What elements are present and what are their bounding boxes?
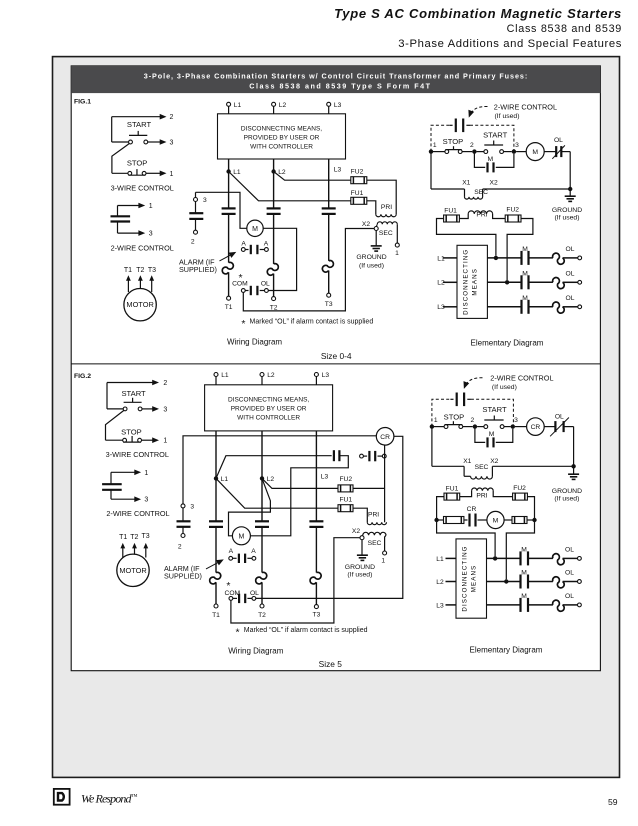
svg-text:1: 1 (433, 142, 437, 149)
fig2 COM-OL contact left terminal (229, 597, 233, 601)
fig2 fuse FU2 (338, 485, 353, 492)
fig2 elem ground node (571, 464, 575, 468)
fig1 line terminal L3 (327, 102, 331, 106)
fig2 elem wire OL to terminal L2 (563, 581, 578, 583)
fig1 M power contact L3 (322, 207, 336, 209)
fig1 terminal X2 (376, 224, 377, 226)
svg-text:SEC: SEC (379, 230, 393, 237)
fig2 2-wire control wire to point 1 (111, 471, 136, 473)
svg-text:M: M (522, 246, 528, 253)
svg-text:3-WIRE CONTROL: 3-WIRE CONTROL (111, 183, 174, 192)
svg-text:Wiring Diagram: Wiring Diagram (227, 338, 282, 347)
fig2 overload heater on T2 (256, 572, 267, 584)
fig2 elem node rung left (434, 518, 438, 522)
svg-text:FU2: FU2 (506, 207, 519, 214)
fig1 fuse FU1 (351, 197, 367, 204)
fig1 elem fuse FU1 (444, 215, 460, 222)
fig2 line terminal L1 (214, 373, 218, 377)
fig2 node L1 (214, 476, 218, 480)
fig2 START pushbutton (124, 401, 142, 403)
fig2 elem M seal-in contact (475, 427, 485, 443)
svg-text:T3: T3 (325, 301, 333, 308)
fig1 elem bottom rail left segment (431, 188, 465, 190)
fig2 STOP pushbutton (106, 439, 123, 441)
svg-text:Wiring Diagram: Wiring Diagram (228, 647, 283, 656)
svg-text:STOP: STOP (121, 427, 142, 436)
fig1 elem dashed 2-wire box (431, 125, 514, 151)
fig2 elem wire M contact to OL L2 (528, 581, 553, 583)
svg-text:L1: L1 (234, 102, 242, 109)
fig1 2-wire contact (111, 215, 131, 217)
svg-text:3: 3 (514, 417, 518, 424)
fig2 alarm contact terminal A right (252, 556, 256, 560)
svg-text:SUPPLIED): SUPPLIED) (164, 572, 202, 581)
svg-text:L2: L2 (267, 476, 275, 483)
svg-text:(If used): (If used) (359, 262, 384, 269)
svg-text:3: 3 (144, 497, 148, 504)
fig2 wire start to stop diagonal (106, 410, 124, 440)
svg-text:L2: L2 (278, 169, 286, 176)
fig2 elem wire FU2 right down to rung (527, 497, 534, 520)
fig1 disconnecting means box (218, 114, 346, 159)
fig1 terminal 3 (194, 198, 198, 202)
fig2 fuse FU1 (338, 505, 353, 512)
svg-text:2-WIRE CONTROL: 2-WIRE CONTROL (106, 509, 169, 518)
fig2 elem STOP contact (434, 426, 444, 428)
fig1 motor lead arrow 1 (127, 279, 129, 292)
svg-text:3-Pole, 3-Phase Combination St: 3-Pole, 3-Phase Combination Starters w/ … (144, 71, 528, 80)
inner white content box (71, 66, 600, 671)
fig2 wire L1 to FU1 (216, 478, 338, 508)
fig2 line terminal L2 (260, 373, 264, 377)
svg-text:Elementary Diagram: Elementary Diagram (471, 338, 544, 347)
svg-text:FIG.1: FIG.1 (74, 98, 91, 105)
fig2 elem fuse FU1 (444, 493, 460, 500)
fig1 wire contact to terminal 2 (195, 219, 197, 230)
fig1 elem M seal-in contact (474, 152, 485, 168)
svg-text:MEANS: MEANS (471, 565, 478, 593)
svg-text:FU2: FU2 (513, 485, 526, 492)
svg-text:T1: T1 (119, 534, 127, 541)
svg-text:SUPPLIED): SUPPLIED) (179, 265, 217, 274)
svg-text:T2: T2 (136, 267, 144, 274)
fig1 line terminal L1 (227, 102, 231, 106)
svg-text:L1: L1 (221, 476, 229, 483)
fig1 elem overload heater L2 (553, 278, 565, 289)
fig1 elem node at L2 tap (505, 280, 509, 284)
fig2 elem node rung right (532, 518, 536, 522)
svg-text:FU2: FU2 (351, 168, 364, 175)
svg-text:M: M (252, 226, 258, 233)
svg-text:1: 1 (149, 203, 153, 210)
svg-text:OL: OL (565, 546, 574, 553)
fig1 motor lead arrow 2 (139, 279, 141, 289)
fig2 wire T1 to terminal (215, 582, 217, 604)
fig1 terminal 3 stub (195, 192, 197, 197)
fig2 wire L1 up to 2-wire contact (216, 456, 332, 479)
fig2 elem wire M contact to OL L1 (528, 557, 553, 559)
svg-text:PRI: PRI (476, 492, 487, 499)
fig2 terminal 2 (181, 534, 185, 538)
fig1 line terminal L2 (272, 102, 276, 106)
svg-text:3: 3 (190, 504, 194, 511)
fig2 elem wire OL to terminal L1 (563, 557, 578, 559)
fig2 M coil circle (232, 527, 250, 545)
fig1 elem wire M contact to OL L3 (529, 306, 553, 308)
fig1 elem overload heater L1 (553, 253, 565, 264)
fig1 alarm contact terminal A right (265, 248, 269, 252)
fig1 wire start to stop diagonal (112, 144, 129, 174)
fig1 elem bottom rail right segment (483, 188, 571, 190)
fig2 M power contact L2 (255, 520, 269, 522)
fig2 CR coil circle (376, 428, 394, 446)
svg-text:Class 8538 and 8539: Class 8538 and 8539 (507, 23, 622, 35)
svg-text:MOTOR: MOTOR (126, 300, 153, 309)
svg-text:3: 3 (203, 197, 207, 204)
svg-text:X2: X2 (362, 221, 370, 228)
fig2 wires terminals into disconnect box (215, 377, 217, 385)
svg-text:GROUND: GROUND (552, 488, 582, 495)
svg-text:OL: OL (555, 413, 564, 420)
fig2 floating 2-wire contact (363, 455, 367, 457)
svg-text:2: 2 (191, 239, 195, 246)
fig1 overload heater on T1 (222, 262, 233, 274)
fig2 M power contact L3 (309, 520, 323, 522)
svg-text:(If used): (If used) (555, 215, 580, 222)
fig1 2-wire wire to point 3 (117, 222, 119, 234)
svg-text:T3: T3 (142, 533, 150, 540)
svg-text:L1: L1 (437, 255, 445, 262)
fig2 wire L1 contact to OL (215, 527, 217, 573)
fig2 overload heater on T3 (310, 572, 321, 584)
fig2 2-wire tap contact (177, 520, 191, 522)
fig2 wire L3 below box (315, 431, 317, 521)
fig1 wire terminal 3 to contact (195, 202, 197, 214)
fig1 elem L1 line to M contact (487, 257, 521, 259)
fig2 wire CR bottom to FU2 and primary right (384, 445, 386, 522)
svg-text:FU1: FU1 (351, 190, 364, 197)
fig2 elem ground symbol (573, 466, 575, 474)
fig1 elem right rail down (569, 152, 571, 189)
fig2 motor terminal T3 (314, 605, 318, 609)
svg-text:OL: OL (565, 593, 574, 600)
fig1 COM-OL contact (245, 290, 248, 292)
fig2 wire FU1 right to primary left (353, 508, 367, 522)
fig1 elem wire node3 to M coil (516, 151, 526, 153)
svg-text:L2: L2 (437, 280, 445, 287)
fig2 wire start to point 3 (107, 408, 123, 410)
fig2 overload heater on T1 (210, 572, 221, 584)
fig2 terminal 1 of control (383, 551, 387, 555)
fig2 elem right rail down (573, 427, 575, 467)
fig1 motor terminal T3 (327, 293, 331, 297)
svg-text:3: 3 (170, 140, 174, 147)
svg-text:3: 3 (515, 142, 519, 149)
svg-text:1: 1 (170, 171, 174, 178)
fig2 elem wire node3 to CR coil (515, 426, 527, 428)
fig2 motor lead arrow 2 (134, 547, 136, 555)
fig1 elem node 3 (512, 149, 516, 153)
fig2 elem L2 line to M contact (487, 581, 521, 583)
fig1 elem M coil (526, 143, 544, 161)
fig1 2-wire control wire to point 1 (118, 205, 140, 207)
fig2 elem open terminal L3 (578, 603, 582, 607)
fig2 wire L1 below box (215, 431, 217, 521)
fig2 wire L2 contact to OL (261, 527, 263, 573)
fig2 floating 2-wire terminal right (382, 454, 386, 458)
fig2 M power contact L1 (209, 520, 223, 522)
svg-text:SEC: SEC (474, 189, 488, 196)
fig2 elem M coil (487, 511, 504, 528)
fig2 wire M coil left to L2 node (229, 478, 271, 535)
fig1 wire SEC right to terminal 1 (396, 224, 398, 243)
fig1 elem dashed pointer arrow (471, 106, 488, 114)
svg-text:M: M (238, 533, 244, 540)
svg-text:START: START (483, 131, 508, 140)
svg-text:3: 3 (163, 406, 167, 413)
fig1 elem STOP contact (433, 151, 445, 153)
fig1 motor terminal T1 (227, 296, 231, 300)
svg-text:FIG.2: FIG.2 (74, 373, 91, 380)
fig1 elem fuse FU2 (505, 215, 521, 222)
fig2 elem OL contact (544, 426, 555, 428)
fig1 wire FU1 to transformer primary left (367, 201, 376, 214)
fig1 elem node at L1 tap (494, 256, 498, 260)
fig1 START pushbutton (129, 134, 147, 136)
fig2 wire SEC right to terminal 1 (385, 535, 386, 551)
svg-text:MEANS: MEANS (472, 268, 479, 296)
fig2 COM-OL contact (233, 597, 237, 599)
svg-text:2: 2 (470, 142, 474, 149)
svg-text:2: 2 (178, 544, 182, 551)
svg-text:X2: X2 (490, 458, 498, 465)
svg-text:L2: L2 (267, 372, 275, 379)
fig2 motor lead arrow 1 (122, 547, 124, 558)
svg-text:DISCONNECTING: DISCONNECTING (462, 545, 469, 611)
fig2 elem node at L2 tap (504, 579, 508, 583)
svg-text:Type S AC Combination Magnetic: Type S AC Combination Magnetic Starters (334, 6, 622, 21)
fig1 wire FU2 to transformer primary right (367, 180, 396, 214)
svg-text:OL: OL (566, 246, 575, 253)
fig1 wire L3 contact to OL (328, 214, 330, 261)
fig2 wire T2 to terminal (261, 582, 263, 604)
svg-text:M: M (522, 271, 528, 278)
svg-text:X2: X2 (352, 528, 360, 535)
svg-text:Size 0-4: Size 0-4 (321, 351, 352, 361)
fig2 elem node 3 (511, 424, 515, 428)
fig1 elem ground symbol (569, 189, 571, 196)
fig1 MOTOR circle (124, 289, 156, 321)
svg-text:OL: OL (565, 570, 574, 577)
svg-text:PROVIDED BY USER OR: PROVIDED BY USER OR (244, 135, 320, 142)
svg-text:L3: L3 (321, 474, 329, 481)
fig2 elem wire rung left to L1 tap (437, 520, 496, 556)
svg-text:STOP: STOP (127, 158, 148, 167)
fig2 elem overload heater L1 (553, 554, 565, 565)
svg-text:SEC: SEC (368, 540, 382, 547)
fig2 wire L2 to FU2 (262, 478, 338, 488)
svg-text:OL: OL (261, 281, 270, 288)
fig2 3-wire control wire to point 2 (107, 382, 154, 384)
svg-text:L2: L2 (279, 102, 287, 109)
svg-text:M: M (493, 518, 499, 525)
svg-text:CR: CR (531, 424, 541, 431)
svg-text:STOP: STOP (443, 137, 464, 146)
svg-text:STOP: STOP (444, 413, 465, 422)
fig2 elem bottom rail left segment (432, 465, 464, 467)
svg-text:A: A (264, 240, 269, 247)
fig1 elem wire OL to terminal L3 (563, 306, 578, 308)
fig1 alarm contact terminal A left (241, 248, 245, 252)
fig1 COM-OL contact left terminal (241, 289, 245, 293)
fig1 wire X2 to bottom rail (243, 229, 374, 311)
fig1 overload heater on T2 (267, 264, 278, 276)
fig1 wire L1 to FU1 (229, 172, 351, 201)
svg-text:Size 5: Size 5 (319, 659, 343, 669)
fig1 elem wire OL to terminal L1 (563, 257, 578, 259)
fig2 elem disconnecting means box (456, 539, 487, 618)
svg-text:FU1: FU1 (339, 497, 352, 504)
svg-text:2-WIRE CONTROL: 2-WIRE CONTROL (494, 102, 557, 111)
svg-text:(If used): (If used) (347, 572, 372, 579)
svg-text:(If used): (If used) (554, 496, 579, 503)
svg-text:X1: X1 (463, 458, 471, 465)
svg-text:2: 2 (170, 114, 174, 121)
fig2 line terminal L3 (314, 373, 318, 377)
fig1 wire stop to point 1 (146, 172, 161, 174)
fig2 wire T3 to terminal (315, 582, 317, 604)
fig2 node L2 (260, 476, 264, 480)
svg-text:DISCONNECTING MEANS,: DISCONNECTING MEANS, (228, 397, 309, 404)
fig2 control rail from CR coil to terminal 3 branch (183, 436, 376, 504)
fig2 elem bottom rail right segment (492, 465, 573, 467)
svg-text:DISCONNECTING MEANS,: DISCONNECTING MEANS, (241, 126, 322, 133)
fig2 wire OL contact to CR loop (256, 436, 403, 598)
svg-text:CR: CR (467, 506, 477, 513)
fig1 elem OL contact (544, 151, 556, 153)
svg-text:X2: X2 (490, 180, 498, 187)
svg-text:1: 1 (395, 250, 399, 257)
svg-text:L1: L1 (221, 372, 229, 379)
fig2 wire X2 to bottom rail (231, 538, 360, 623)
svg-text:T1: T1 (212, 612, 220, 619)
svg-text:A: A (251, 548, 256, 555)
svg-text:2: 2 (163, 380, 167, 387)
svg-text:(If used): (If used) (492, 384, 517, 391)
fig2 elem rung fuse right (504, 519, 512, 521)
svg-text:OL: OL (250, 590, 259, 597)
fig2 MOTOR circle (117, 554, 149, 586)
fig2 wire stop to point 1 (142, 439, 154, 441)
svg-text:OL: OL (554, 137, 563, 144)
fig2 elem wire M contact to OL L3 (528, 604, 553, 606)
fig2 elem dashed 2-wire box (432, 399, 514, 426)
svg-text:3-WIRE CONTROL: 3-WIRE CONTROL (106, 450, 169, 459)
svg-text:2-WIRE CONTROL: 2-WIRE CONTROL (111, 244, 174, 253)
fig1 elem L1 stub into box (443, 257, 457, 259)
fig1 wire T3 to terminal (328, 271, 330, 294)
svg-text:59: 59 (608, 797, 618, 807)
fig2 elem L1 line to M contact (487, 557, 521, 559)
outer gray panel (53, 57, 620, 778)
fig2 terminal X2 (361, 534, 364, 537)
svg-text:L2: L2 (436, 579, 444, 586)
fig2 elem 2-wire contact (450, 398, 453, 400)
fig1 wire L3 below box (328, 159, 330, 208)
svg-text:M: M (532, 149, 538, 156)
svg-text:FU1: FU1 (446, 486, 459, 493)
figure divider line (71, 363, 600, 365)
fig1 elem wire M contact to OL L2 (529, 281, 553, 283)
svg-text:L3: L3 (437, 304, 445, 311)
svg-text:GROUND: GROUND (356, 254, 386, 261)
fig2 2-wire wire to point 3 (110, 490, 112, 499)
fig1 elem L3 line to M contact (487, 306, 521, 308)
svg-text:T2: T2 (258, 612, 266, 619)
svg-text:PROVIDED BY USER OR: PROVIDED BY USER OR (231, 406, 307, 413)
svg-text:L3: L3 (334, 167, 342, 174)
fig1 elem wire FU1 to L1 tap (437, 219, 496, 256)
fig2 elem fuse FU2 (513, 493, 528, 500)
svg-text:T3: T3 (148, 267, 156, 274)
fig2 elem L1 stub into box (446, 557, 457, 559)
fig2 wire L3 contact to OL (315, 527, 317, 573)
svg-text:WITH CONTROLLER: WITH CONTROLLER (250, 144, 313, 151)
fig1 elem right rail to ground adjust (430, 152, 432, 189)
svg-text:T1: T1 (225, 304, 233, 311)
svg-text:Marked “OL” if alarm contact i: Marked “OL” if alarm contact is supplied (250, 319, 374, 326)
svg-text:DISCONNECTING: DISCONNECTING (463, 249, 470, 315)
svg-text:3-Phase Additions and Special: 3-Phase Additions and Special Features (398, 38, 622, 50)
fig2 elem transformer primary (472, 488, 494, 491)
fig1 terminal 1 of control (395, 243, 399, 247)
fig2 wire terminal 3 to contact (182, 508, 184, 521)
fig1 node L2 (271, 169, 275, 173)
fig1 elem START contact (477, 151, 484, 153)
fig2 elem wire rung right to L2 tap (506, 520, 534, 579)
fig1 M power contact L2 (267, 207, 281, 209)
fig2 elem wire OL to terminal L3 (563, 604, 578, 606)
fig2 elem overload heater L3 (553, 600, 565, 611)
svg-text:T2: T2 (270, 304, 278, 311)
svg-text:L3: L3 (334, 102, 342, 109)
svg-text:A: A (229, 548, 234, 555)
fig1 control tap wire from terminal 3 to M coil branch (196, 192, 248, 228)
fig1 elem 2-wire contact (450, 124, 453, 126)
fig1 elem transformer primary (468, 211, 492, 214)
fig1 elem node 1 (429, 149, 433, 153)
fig2 elem wire FU1 left down to rung (437, 497, 444, 520)
fig1 elem open terminal L2 (578, 280, 582, 284)
fig1 wire T1 to terminal (228, 272, 230, 296)
svg-text:2-WIRE CONTROL: 2-WIRE CONTROL (490, 374, 553, 383)
fig2 elem overload heater L2 (553, 577, 565, 588)
fig1 elem wire OL to terminal L2 (563, 281, 578, 283)
svg-text:L1: L1 (436, 556, 444, 563)
svg-text:A: A (241, 240, 246, 247)
fig2 elem open terminal L1 (578, 557, 582, 561)
svg-text:M: M (521, 547, 527, 554)
fig1 elem L2 stub into box (443, 281, 457, 283)
fig1 2-wire tap contact (189, 212, 203, 214)
fig2 2-wire contact (102, 483, 122, 485)
fig1 transformer primary coil PRI (376, 214, 396, 217)
svg-text:3: 3 (149, 231, 153, 238)
svg-text:1: 1 (381, 558, 385, 565)
fig1 elem wire FU2 to L2 tap (507, 219, 533, 281)
svg-text:START: START (482, 405, 507, 414)
svg-text:START: START (121, 389, 146, 398)
